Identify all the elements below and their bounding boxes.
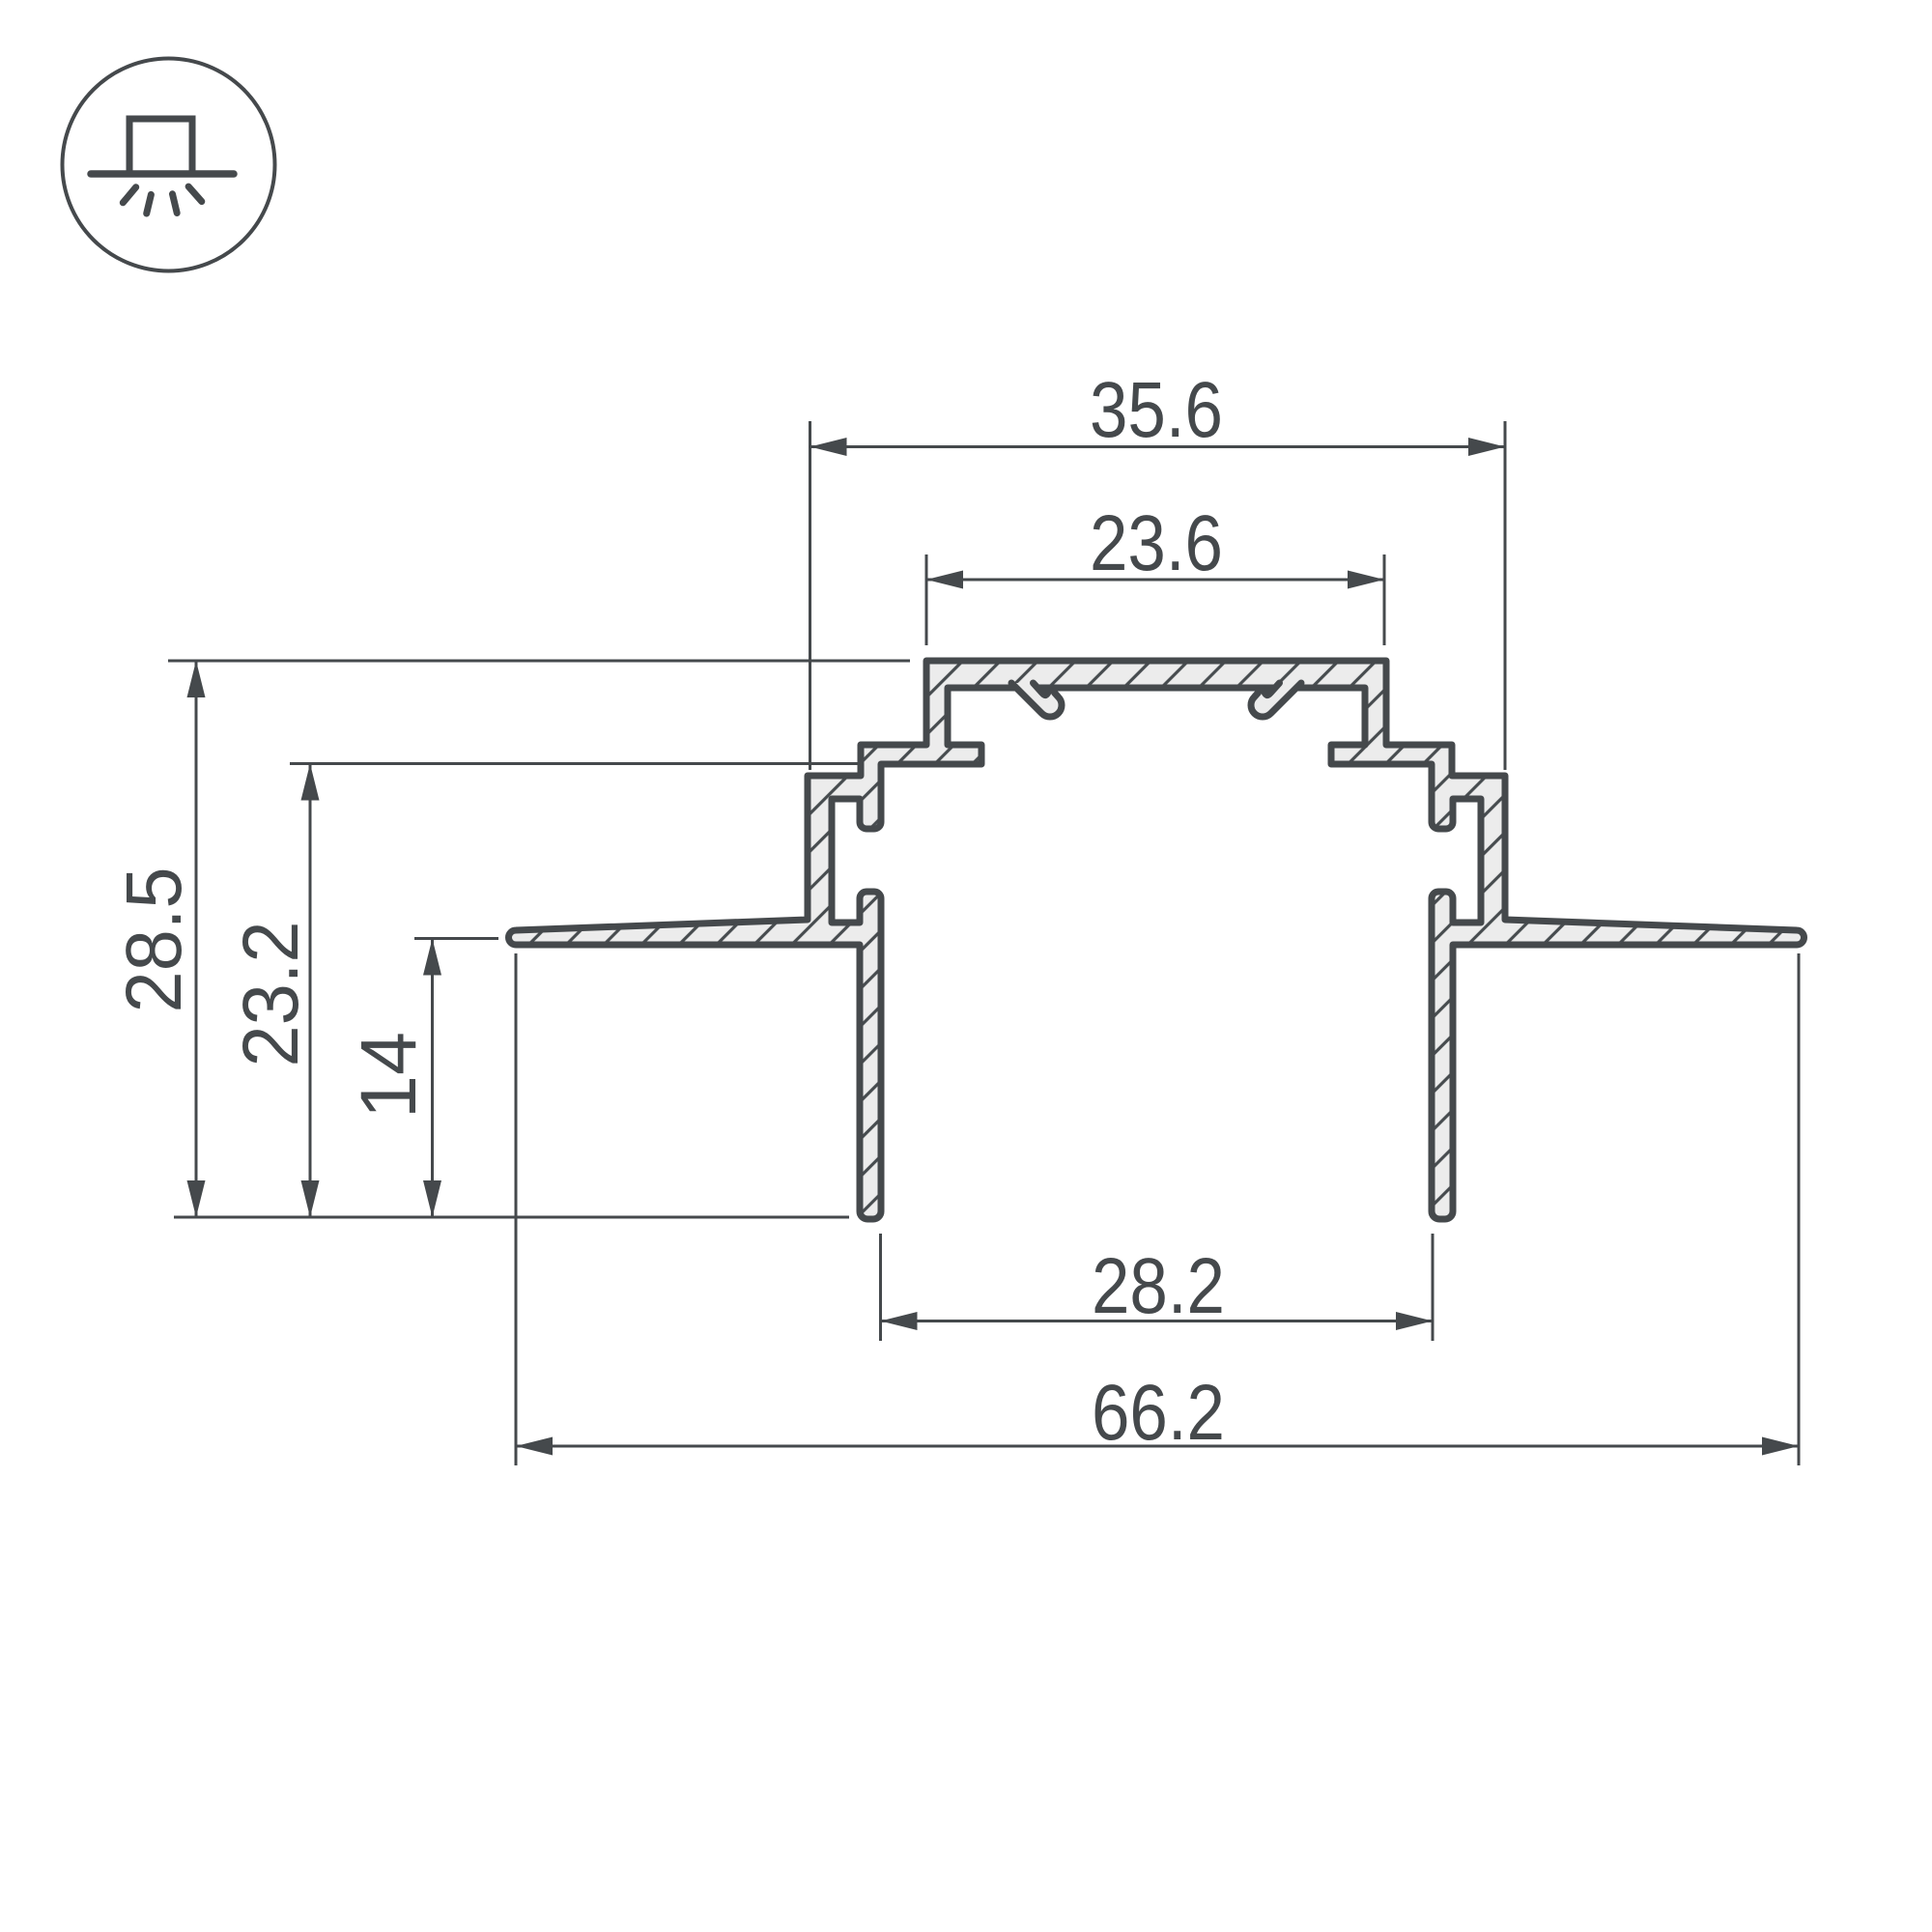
dim 23.6 line xyxy=(926,579,1384,582)
dim 35.6 line xyxy=(810,445,1506,448)
dimension texts xyxy=(110,366,1225,1457)
profile body fill xyxy=(509,661,1804,1219)
svg-text:23.6: 23.6 xyxy=(1090,499,1223,587)
diffuser clip tab left xyxy=(1011,683,1062,717)
28.5 arrows xyxy=(187,661,206,697)
dim 35.6 extension lines xyxy=(809,421,811,770)
dim 23.2 line xyxy=(309,764,312,1218)
svg-text:23.2: 23.2 xyxy=(227,922,315,1067)
profile outline xyxy=(509,661,1804,1219)
svg-text:35.6: 35.6 xyxy=(1090,366,1223,454)
icon ceiling line xyxy=(91,170,234,178)
dim 14 extension line xyxy=(414,937,498,940)
arrowheads xyxy=(187,438,1800,1456)
66.2 arrows xyxy=(516,1437,553,1456)
dim 28.5 extension lines xyxy=(168,660,910,663)
23.2 arrows xyxy=(301,764,320,801)
dim 23.2 extension line xyxy=(290,762,858,765)
svg-text:66.2: 66.2 xyxy=(1092,1369,1225,1457)
dim 66.2 extension lines xyxy=(515,953,518,1465)
dim 28.2 extension lines xyxy=(879,1234,882,1341)
28.2 arrows xyxy=(881,1312,918,1330)
14 arrows xyxy=(423,939,441,976)
23.6 arrows xyxy=(926,571,963,589)
profile hatching xyxy=(509,661,1804,1219)
dim 28.5 line xyxy=(195,661,198,1217)
diffuser clip tab right xyxy=(1251,683,1301,717)
dim 14 line xyxy=(431,939,434,1218)
dim 28.2 line xyxy=(881,1320,1434,1322)
svg-text:14: 14 xyxy=(345,1032,433,1119)
svg-text:28.5: 28.5 xyxy=(110,867,198,1013)
icon light rays xyxy=(123,186,202,213)
svg-text:28.2: 28.2 xyxy=(1092,1242,1225,1330)
dim 23.6 extension lines xyxy=(925,554,928,645)
35.6 arrows xyxy=(810,438,847,456)
icon housing square xyxy=(129,119,192,174)
icon circle xyxy=(63,59,275,271)
dim 66.2 line xyxy=(516,1445,1799,1448)
